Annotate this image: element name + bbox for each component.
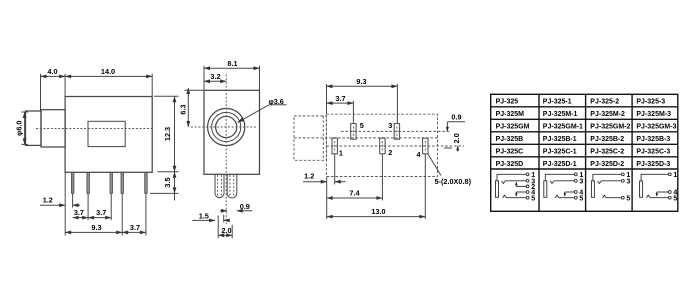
dimension 14.0 bbox=[65, 67, 152, 96]
wire pin5 bbox=[650, 197, 668, 199]
svg-text:PJ-325B-3: PJ-325B-3 bbox=[636, 136, 670, 143]
dimension 4.0 bbox=[41, 67, 66, 111]
svg-text:PJ-325B-2: PJ-325B-2 bbox=[590, 136, 624, 143]
pad pin 2 bbox=[380, 138, 393, 157]
schematic cell 1 pin labels bbox=[531, 172, 535, 202]
pad pin 5 bbox=[351, 121, 364, 139]
table row PJ-325D bbox=[496, 161, 671, 168]
wire pin5 bbox=[606, 197, 621, 199]
wire pin5 bbox=[559, 197, 575, 199]
svg-text:5: 5 bbox=[531, 195, 535, 202]
body outline bbox=[204, 90, 260, 174]
pin P4 bbox=[121, 172, 124, 193]
side view: jack body J1 bbox=[26, 97, 153, 194]
svg-text:φ3.6: φ3.6 bbox=[269, 97, 284, 106]
terminal 5 bbox=[574, 196, 577, 199]
pin right U bbox=[227, 174, 237, 198]
switch arm 4 bbox=[515, 192, 517, 196]
switch arm 4 bbox=[656, 192, 658, 196]
top pin row centerline bbox=[341, 130, 451, 132]
schematic cell PJ-325-2: jack JK3 bbox=[591, 173, 624, 199]
svg-text:1: 1 bbox=[673, 172, 677, 179]
ring contact bbox=[602, 195, 606, 198]
wire pin1 bbox=[497, 174, 526, 181]
pin right hidden lines bbox=[229, 175, 231, 196]
pin P3 bbox=[110, 172, 113, 193]
svg-text:8.1: 8.1 bbox=[227, 59, 237, 68]
slot note 5-(2.0X0.8) bbox=[428, 154, 472, 186]
svg-text:PJ-325-2: PJ-325-2 bbox=[590, 99, 619, 106]
label phi 3.6 leader bbox=[238, 97, 287, 123]
svg-text:2: 2 bbox=[388, 148, 392, 157]
terminal 5 bbox=[668, 196, 671, 199]
sleeve bar bbox=[544, 181, 547, 198]
terminal 4 bbox=[668, 191, 671, 194]
svg-text:3.7: 3.7 bbox=[130, 223, 140, 232]
svg-text:2.0: 2.0 bbox=[221, 226, 231, 235]
svg-text:PJ-325B: PJ-325B bbox=[496, 136, 524, 143]
terminal 1 bbox=[526, 173, 529, 176]
axis centerline bbox=[294, 137, 438, 139]
pin P1 bbox=[71, 172, 74, 193]
svg-text:PJ-325D-3: PJ-325D-3 bbox=[636, 161, 670, 168]
dimension 8.1 bbox=[204, 59, 260, 90]
svg-text:PJ-325D-1: PJ-325D-1 bbox=[543, 161, 577, 168]
table row PJ-325C bbox=[496, 149, 671, 156]
schematic cell PJ-325: jack JK1 bbox=[496, 173, 529, 199]
front view: jack body J2 bbox=[191, 75, 260, 225]
svg-text:14.0: 14.0 bbox=[101, 67, 115, 76]
schematic cell PJ-325-1: jack JK2 bbox=[544, 173, 577, 199]
wire pin3 bbox=[554, 180, 575, 182]
sleeve bar bbox=[591, 181, 594, 198]
svg-text:3: 3 bbox=[388, 121, 392, 130]
svg-text:PJ-325: PJ-325 bbox=[496, 99, 519, 106]
svg-text:5: 5 bbox=[360, 121, 364, 130]
dimension 1.2 bbox=[40, 172, 80, 235]
barrel tip ring bbox=[26, 111, 42, 145]
svg-text:5: 5 bbox=[626, 195, 630, 202]
dimension 0.9 bottom view bbox=[447, 113, 465, 132]
switch arm 2 bbox=[515, 182, 517, 186]
wire pin1 bbox=[641, 174, 668, 181]
svg-text:PJ-325GM-2: PJ-325GM-2 bbox=[590, 124, 630, 131]
terminal 5 bbox=[526, 196, 529, 199]
terminal 2 bbox=[526, 185, 529, 188]
centerline axis bbox=[36, 128, 152, 130]
inner window bbox=[88, 121, 125, 146]
svg-text:7.4: 7.4 bbox=[349, 188, 360, 197]
terminal 1 bbox=[668, 173, 671, 176]
svg-text:0.9: 0.9 bbox=[451, 113, 461, 122]
sleeve bar bbox=[496, 181, 499, 198]
svg-text:5: 5 bbox=[673, 195, 677, 202]
dimension 2.0 front bbox=[218, 216, 232, 239]
schematic cell 2 pin labels bbox=[579, 172, 583, 202]
switch arm 4 bbox=[564, 192, 566, 196]
svg-text:PJ-325C-1: PJ-325C-1 bbox=[543, 149, 577, 156]
svg-text:3.7: 3.7 bbox=[96, 208, 106, 217]
dimension 3.5 bbox=[150, 172, 179, 201]
dimension 3.7 third bbox=[122, 194, 146, 236]
terminal 3 bbox=[526, 179, 529, 182]
schematic cell PJ-325-3: jack JK4 bbox=[640, 173, 672, 199]
middle circle bbox=[212, 112, 241, 141]
tip contact bbox=[550, 181, 554, 183]
svg-text:13.0: 13.0 bbox=[371, 207, 385, 216]
svg-text:PJ-325C-3: PJ-325C-3 bbox=[636, 149, 670, 156]
svg-text:3: 3 bbox=[626, 178, 630, 185]
svg-text:3: 3 bbox=[579, 178, 583, 185]
barrel hidden outline bbox=[294, 116, 326, 160]
tip contact bbox=[598, 181, 602, 183]
terminal 3 bbox=[574, 179, 577, 182]
ring contact bbox=[555, 195, 559, 198]
terminal 4 bbox=[526, 191, 529, 194]
pad pin 1 bbox=[332, 138, 343, 157]
bottom view: jack footprint J3 bbox=[294, 114, 464, 176]
dimension 6.3 bbox=[179, 88, 204, 127]
table row PJ-325 bbox=[496, 99, 666, 106]
svg-text:3.7: 3.7 bbox=[74, 208, 84, 217]
schematic cell 4 pin labels bbox=[673, 172, 677, 202]
svg-text:PJ-325GM: PJ-325GM bbox=[496, 124, 530, 131]
svg-text:0.9: 0.9 bbox=[240, 202, 250, 211]
wire pin4 bbox=[657, 191, 669, 193]
svg-text:1.2: 1.2 bbox=[304, 172, 314, 181]
ring contact bbox=[646, 195, 650, 198]
svg-text:3.7: 3.7 bbox=[335, 94, 345, 103]
svg-text:9.3: 9.3 bbox=[356, 77, 366, 86]
terminal 1 bbox=[574, 173, 577, 176]
svg-text:1.5: 1.5 bbox=[199, 212, 209, 221]
dimension 0.9 front bbox=[220, 202, 253, 211]
barrel neck hidden line bbox=[322, 116, 324, 160]
tip contact bbox=[502, 181, 506, 183]
svg-text:9.3: 9.3 bbox=[91, 223, 101, 232]
wire pin4 bbox=[516, 191, 526, 193]
dimension 9.3 bottom view bbox=[327, 77, 398, 123]
pin left hidden lines bbox=[217, 175, 219, 196]
inner circle phi3.6 bbox=[216, 116, 237, 137]
svg-text:PJ-325M-3: PJ-325M-3 bbox=[636, 111, 671, 118]
svg-text:PJ-325M-1: PJ-325M-1 bbox=[543, 111, 578, 118]
terminal 4 bbox=[574, 191, 577, 194]
sleeve bar bbox=[640, 181, 643, 197]
pad pin 4 bbox=[417, 138, 429, 159]
dimension 3.2 bbox=[204, 72, 226, 81]
table row PJ-325B bbox=[496, 136, 671, 143]
svg-text:PJ-325GM-3: PJ-325GM-3 bbox=[636, 124, 676, 131]
svg-text:2.0: 2.0 bbox=[452, 133, 461, 143]
svg-text:PJ-325D: PJ-325D bbox=[496, 161, 524, 168]
bottom pin row centerline bbox=[326, 145, 464, 147]
outer circle bbox=[208, 108, 245, 145]
terminal 3 bbox=[621, 179, 624, 182]
svg-text:PJ-325M-2: PJ-325M-2 bbox=[590, 111, 625, 118]
wire pin3 bbox=[601, 180, 621, 182]
dimension phi 6.0 bbox=[14, 112, 28, 144]
svg-text:PJ-325M: PJ-325M bbox=[496, 111, 525, 118]
svg-text:1.2: 1.2 bbox=[43, 196, 53, 205]
svg-text:6.3: 6.3 bbox=[179, 104, 188, 114]
pin P2 bbox=[87, 172, 90, 193]
svg-text:φ6.0: φ6.0 bbox=[14, 121, 23, 136]
terminal 1 bbox=[621, 173, 624, 176]
svg-text:5: 5 bbox=[579, 195, 583, 202]
svg-text:PJ-325B-1: PJ-325B-1 bbox=[543, 136, 577, 143]
wire pin5 bbox=[506, 197, 526, 199]
svg-text:PJ-325C: PJ-325C bbox=[496, 149, 524, 156]
dimension 13.0 bbox=[327, 154, 426, 219]
crosshair vertical bbox=[225, 75, 227, 225]
wire pin4 bbox=[565, 191, 575, 193]
pad pin 3 bbox=[388, 121, 399, 139]
wire pin1 bbox=[545, 174, 574, 181]
pin left U bbox=[215, 174, 224, 197]
ring contact bbox=[503, 195, 507, 198]
dimension 12.3 bbox=[154, 96, 179, 172]
dimension 7.4 bbox=[327, 154, 383, 201]
svg-text:PJ-325D-2: PJ-325D-2 bbox=[590, 161, 624, 168]
wire pin1 bbox=[593, 174, 622, 181]
svg-text:PJ-325-1: PJ-325-1 bbox=[543, 99, 572, 106]
table row PJ-325GM bbox=[496, 124, 677, 131]
svg-text:1: 1 bbox=[339, 149, 343, 158]
dimension 3.7 bottom view bbox=[327, 94, 354, 124]
body hidden outline bbox=[326, 114, 437, 176]
pin P5 bbox=[145, 172, 148, 193]
svg-text:PJ-325-3: PJ-325-3 bbox=[636, 99, 665, 106]
part number table grid bbox=[491, 94, 678, 211]
barrel sleeve bbox=[41, 110, 65, 147]
svg-text:5-(2.0X0.8): 5-(2.0X0.8) bbox=[435, 177, 472, 186]
schematic cell 3 pin labels bbox=[626, 172, 630, 202]
dimension 1.5 bbox=[192, 212, 228, 223]
crosshair horizontal bbox=[191, 126, 258, 128]
dimension 3.7 first bbox=[73, 194, 112, 221]
wire pin2 bbox=[516, 185, 526, 187]
body outline bbox=[65, 97, 152, 173]
wire pin3 bbox=[505, 180, 526, 182]
svg-text:3.5: 3.5 bbox=[163, 177, 172, 187]
svg-text:12.3: 12.3 bbox=[163, 127, 172, 141]
svg-text:PJ-325GM-1: PJ-325GM-1 bbox=[543, 124, 583, 131]
table row PJ-325M bbox=[496, 111, 672, 118]
svg-text:PJ-325C-2: PJ-325C-2 bbox=[590, 149, 624, 156]
svg-text:3.2: 3.2 bbox=[210, 72, 220, 81]
dimension 1.2 bottom view bbox=[303, 154, 346, 219]
svg-text:4.0: 4.0 bbox=[47, 67, 57, 76]
dimension 9.3 bbox=[65, 194, 122, 236]
dimension 3.7 second bbox=[88, 208, 111, 218]
terminal 5 bbox=[621, 196, 624, 199]
dimension 2.0 bottom view bbox=[444, 133, 461, 151]
